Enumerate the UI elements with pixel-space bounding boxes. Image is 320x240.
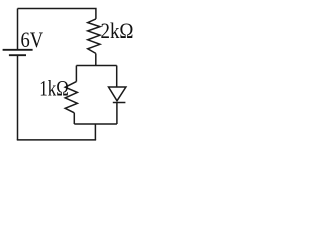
diode D1 triangle bbox=[109, 87, 126, 101]
wire 2k to node bbox=[95, 53, 97, 65]
svg-text:6V: 6V bbox=[21, 27, 44, 52]
battery V1 long plate bbox=[3, 49, 33, 51]
diode D1 cathode bar bbox=[113, 102, 126, 104]
svg-text:1kΩ: 1kΩ bbox=[39, 76, 69, 101]
diode D1 top stub bbox=[116, 66, 118, 88]
diode D1 bottom stub bbox=[116, 103, 118, 125]
wire left upper bbox=[17, 9, 19, 50]
battery V1 short plate bbox=[9, 54, 26, 56]
svg-text:2kΩ: 2kΩ bbox=[101, 18, 134, 43]
wire inner bottom bbox=[74, 123, 117, 125]
resistor R2 1k zigzag bbox=[65, 82, 77, 113]
wire node to bottom bbox=[94, 124, 96, 140]
wire inner top bbox=[76, 65, 116, 67]
wire 1k bottom stub bbox=[73, 113, 75, 124]
wire 1k top stub bbox=[75, 66, 77, 82]
resistor R1 2k zigzag bbox=[88, 19, 100, 54]
wire left lower bbox=[17, 55, 19, 140]
wire bottom bbox=[17, 139, 96, 141]
wire top bbox=[18, 9, 96, 19]
